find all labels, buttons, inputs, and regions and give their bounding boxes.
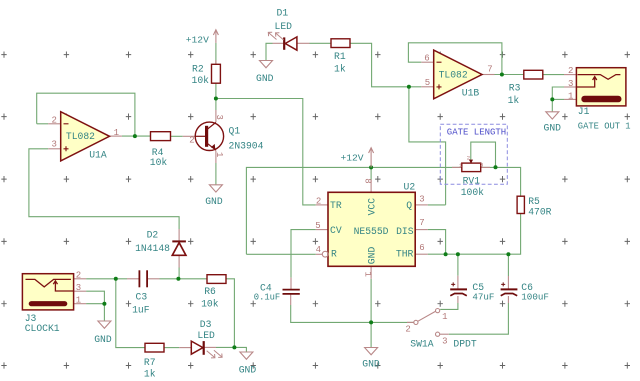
resistor R7 1k xyxy=(145,343,164,352)
resistor R1 1k xyxy=(331,39,350,48)
power +12V (555 VCC) xyxy=(369,148,374,168)
GATE LENGTH group box xyxy=(440,124,507,184)
svg-text:10k: 10k xyxy=(192,75,210,86)
svg-text:VCC: VCC xyxy=(366,198,377,216)
svg-text:D2: D2 xyxy=(147,229,159,240)
J3 pin stubs xyxy=(74,278,87,280)
svg-text:1uF: 1uF xyxy=(132,305,150,316)
svg-text:GATE OUT 1: GATE OUT 1 xyxy=(578,121,631,131)
wire RV1 wiper loop xyxy=(471,142,496,167)
svg-text:1: 1 xyxy=(76,296,81,306)
svg-text:GND: GND xyxy=(239,365,257,376)
svg-text:7: 7 xyxy=(487,65,492,75)
wire D1 cathode to R1 xyxy=(310,42,332,44)
D3 pin stubs xyxy=(179,347,191,349)
power +12V (top) xyxy=(213,30,218,43)
wire Q1 collector node to 555 TR pin xyxy=(216,99,316,205)
svg-text:1k: 1k xyxy=(508,95,520,106)
svg-text:3: 3 xyxy=(480,161,483,168)
svg-text:3: 3 xyxy=(442,337,447,347)
diode D1 LED xyxy=(268,32,297,50)
node C6 top xyxy=(506,252,510,256)
svg-text:5: 5 xyxy=(315,221,320,231)
svg-text:CV: CV xyxy=(330,225,342,236)
svg-text:Q: Q xyxy=(406,200,412,211)
wire +12V corner to 555 R pin xyxy=(246,253,315,255)
ground (Q1 emitter) xyxy=(209,185,222,192)
svg-text:2: 2 xyxy=(189,136,194,146)
C5 pin stubs xyxy=(457,276,459,289)
node D3 cathode / R6 / GND xyxy=(232,345,236,349)
wire D1 anode to GND corner xyxy=(266,43,273,60)
svg-text:GATE LENGTH: GATE LENGTH xyxy=(447,128,506,138)
wire J3 pin3 to pin1 junction xyxy=(86,291,104,304)
svg-text:+12V: +12V xyxy=(341,153,364,164)
node +12V / 555 VCC xyxy=(369,165,373,169)
svg-text:10k: 10k xyxy=(201,299,219,310)
svg-text:D1: D1 xyxy=(277,8,289,19)
node U1B pin5 / R1 / Q xyxy=(407,85,411,89)
svg-text:Q1: Q1 xyxy=(229,126,241,137)
svg-text:3: 3 xyxy=(214,115,224,120)
D2 pin stubs xyxy=(178,229,180,241)
node Q1 collector / R2 xyxy=(214,97,218,101)
resistor R4 10k xyxy=(151,132,171,141)
op-amp U1B TL082 xyxy=(434,50,482,99)
svg-text:D3: D3 xyxy=(200,319,212,330)
wire R3 to J1 pin2 xyxy=(543,74,564,76)
svg-text:1k: 1k xyxy=(144,369,156,380)
svg-text:GND: GND xyxy=(94,334,112,345)
svg-text:R: R xyxy=(331,248,337,259)
ground (D3) xyxy=(240,352,253,359)
svg-text:NE555D: NE555D xyxy=(354,226,389,237)
wire +12V rail from corner to RV1 left xyxy=(246,167,461,254)
svg-text:2: 2 xyxy=(467,154,470,161)
svg-text:2: 2 xyxy=(316,196,321,206)
svg-text:3: 3 xyxy=(568,79,573,89)
wire J1 pin1 junction xyxy=(552,98,564,100)
ground (555) xyxy=(365,348,378,355)
wire C3 right to D2/R6 junction xyxy=(160,278,208,280)
Q1 pin stubs xyxy=(183,135,196,137)
wire Q1 emitter to GND xyxy=(215,163,217,185)
svg-text:LED: LED xyxy=(197,330,215,341)
wire C6 bottom to SW1A pin3 xyxy=(449,303,509,334)
svg-text:6: 6 xyxy=(424,53,429,63)
svg-text:470R: 470R xyxy=(528,206,551,217)
R2 pin stubs xyxy=(215,60,217,64)
J1 pin stubs xyxy=(564,74,576,76)
svg-text:DPDT: DPDT xyxy=(453,338,476,349)
svg-text:+12V: +12V xyxy=(186,34,209,45)
svg-text:2: 2 xyxy=(52,116,57,126)
svg-text:4: 4 xyxy=(316,245,321,255)
svg-text:100k: 100k xyxy=(461,187,484,198)
wire 555 CV to C4 xyxy=(291,230,316,278)
node U1B output xyxy=(500,73,504,77)
svg-text:U1B: U1B xyxy=(462,87,480,98)
svg-text:0.1uF: 0.1uF xyxy=(254,292,280,302)
svg-text:GND: GND xyxy=(366,247,377,265)
switch SW1A DPDT xyxy=(414,309,440,337)
wire 555 Q pin to riser xyxy=(428,204,446,206)
svg-text:1: 1 xyxy=(214,152,224,157)
node DIS/THR xyxy=(444,252,448,256)
svg-text:47uF: 47uF xyxy=(472,292,494,303)
svg-text:CLOCK1: CLOCK1 xyxy=(25,323,60,334)
wire R6 right down to D3 node xyxy=(226,279,234,348)
node C5 top xyxy=(456,252,460,256)
wire C3 node down to R7 xyxy=(116,279,145,348)
svg-text:DIS: DIS xyxy=(396,226,414,237)
ground (J3) xyxy=(98,321,111,328)
svg-text:U2: U2 xyxy=(404,181,416,192)
C6 pin stubs xyxy=(507,276,509,289)
svg-text:7: 7 xyxy=(419,218,424,228)
wire J1 pin3 down to pin1 junction xyxy=(552,87,564,99)
svg-text:THR: THR xyxy=(396,248,414,259)
capacitor C4 0.1uF xyxy=(283,290,300,294)
resistor R2 10k xyxy=(212,64,221,83)
connector J1 GATE OUT 1 xyxy=(576,68,626,106)
svg-text:U1A: U1A xyxy=(89,150,107,161)
wire D3 cathode to junction and GND stub xyxy=(216,347,246,352)
svg-text:2: 2 xyxy=(568,66,573,76)
svg-text:RV1: RV1 xyxy=(463,176,481,187)
svg-text:2: 2 xyxy=(405,324,410,334)
wire 555 GND pin down to rail xyxy=(370,279,372,348)
wire C4 bottom to GND rail xyxy=(291,305,414,322)
wire +12V to R2 top xyxy=(215,43,217,64)
svg-text:C3: C3 xyxy=(136,292,148,303)
svg-text:GND: GND xyxy=(544,123,562,134)
wire J3 pin1 to junction and GND xyxy=(86,304,104,321)
svg-text:1: 1 xyxy=(114,128,119,138)
node 555 GND rail xyxy=(369,320,373,324)
svg-text:1: 1 xyxy=(362,272,372,277)
svg-text:5: 5 xyxy=(425,78,430,88)
svg-text:J1: J1 xyxy=(578,106,590,117)
diode D3 LED xyxy=(191,341,222,358)
wire U1B output to R3 xyxy=(495,74,524,76)
RV1 pin stubs xyxy=(452,166,462,168)
svg-text:GND: GND xyxy=(362,359,380,370)
U1B pin stubs xyxy=(421,61,433,63)
C3 pin stubs xyxy=(127,278,139,280)
svg-text:3: 3 xyxy=(76,283,81,293)
wire R1 to U1B pin5 node xyxy=(350,43,421,87)
svg-text:GND: GND xyxy=(205,196,223,207)
node J1 pin1/pin3/GND xyxy=(550,97,554,101)
potentiometer RV1 100k xyxy=(462,160,481,172)
C4 pin stubs xyxy=(290,278,292,290)
node RV1 right / wiper xyxy=(494,165,498,169)
svg-text:10k: 10k xyxy=(150,157,168,168)
wire U1A feedback net (pin2 to output) xyxy=(37,93,135,136)
svg-text:R5: R5 xyxy=(528,196,540,207)
transistor Q1 2N3904 xyxy=(195,122,223,150)
wire U1A pin3 to D2 top xyxy=(29,149,179,229)
svg-text:1: 1 xyxy=(568,91,573,101)
wire J1 junction to GND xyxy=(551,99,553,111)
svg-text:TL082: TL082 xyxy=(66,131,95,142)
wire RV1 right to R5 top corner xyxy=(481,167,521,196)
svg-text:R3: R3 xyxy=(509,83,521,94)
SW1A pin stubs xyxy=(407,321,414,323)
U1A pin stubs xyxy=(48,123,61,125)
timer U2 NE555D xyxy=(328,192,415,266)
svg-text:GND: GND xyxy=(256,73,274,84)
svg-text:TL082: TL082 xyxy=(439,70,468,81)
svg-text:LED: LED xyxy=(275,21,293,32)
ground (D1) xyxy=(260,61,273,68)
wire 555 DIS pin down to THR node xyxy=(428,230,446,255)
555 pin stubs xyxy=(316,204,328,206)
wire THR node rail to R5 bottom xyxy=(428,214,521,255)
svg-text:R6: R6 xyxy=(204,286,216,297)
node C3 / D2 / R6 xyxy=(176,277,180,281)
node J3 pin1/pin3 xyxy=(102,302,106,306)
wire C5 top to THR rail xyxy=(457,254,459,276)
capacitor C6 100uF polarized xyxy=(501,282,518,295)
wire U1B pin6 feedback from output junction xyxy=(408,43,502,75)
wire D2 bottom to junction xyxy=(178,268,180,279)
svg-text:6: 6 xyxy=(419,243,424,253)
ground (J1) xyxy=(546,112,559,119)
D1 pin stubs xyxy=(273,42,285,44)
inversion circle on 555 R pin xyxy=(322,251,328,257)
svg-text:1k: 1k xyxy=(334,64,346,75)
resistor R5 470R xyxy=(517,196,524,213)
connector J3 CLOCK1 xyxy=(22,274,73,310)
svg-text:1: 1 xyxy=(442,312,447,322)
wire pin5 node down to Q output of 555 xyxy=(409,87,446,205)
diode D2 1N4148 xyxy=(172,241,186,255)
capacitor C5 47uF polarized xyxy=(450,282,467,295)
wire U1A output to R4 xyxy=(122,135,151,137)
svg-text:2N3904: 2N3904 xyxy=(229,140,264,151)
svg-text:3: 3 xyxy=(52,139,57,149)
svg-text:100uF: 100uF xyxy=(521,292,549,303)
svg-text:R7: R7 xyxy=(144,357,156,368)
node U1A output junction xyxy=(133,134,137,138)
svg-text:1N4148: 1N4148 xyxy=(135,243,170,254)
capacitor C3 1uF xyxy=(139,270,147,287)
wire C6 top to THR rail xyxy=(507,254,509,276)
resistor R6 10k xyxy=(207,275,226,284)
svg-text:8: 8 xyxy=(362,178,372,183)
svg-text:TR: TR xyxy=(330,200,342,211)
wire C5 bottom to SW1A pin1 xyxy=(440,303,458,309)
node J3 pin2 / C3 / R7 xyxy=(114,277,118,281)
svg-text:3: 3 xyxy=(419,194,424,204)
wire J3 pin2 to C3 xyxy=(86,278,127,280)
svg-text:R2: R2 xyxy=(192,63,204,74)
svg-text:R1: R1 xyxy=(334,51,346,62)
wire R2 bottom to Q1 collector junction xyxy=(215,83,217,110)
wire R7 to D3 anode xyxy=(164,347,179,349)
svg-text:2: 2 xyxy=(76,271,81,281)
op-amp U1A TL082 xyxy=(61,112,110,161)
wire 555 VCC to +12V junction xyxy=(370,168,372,181)
resistor R3 1k xyxy=(524,70,543,79)
svg-text:SW1A: SW1A xyxy=(410,338,433,349)
wire R4 to Q1 base xyxy=(171,135,183,137)
